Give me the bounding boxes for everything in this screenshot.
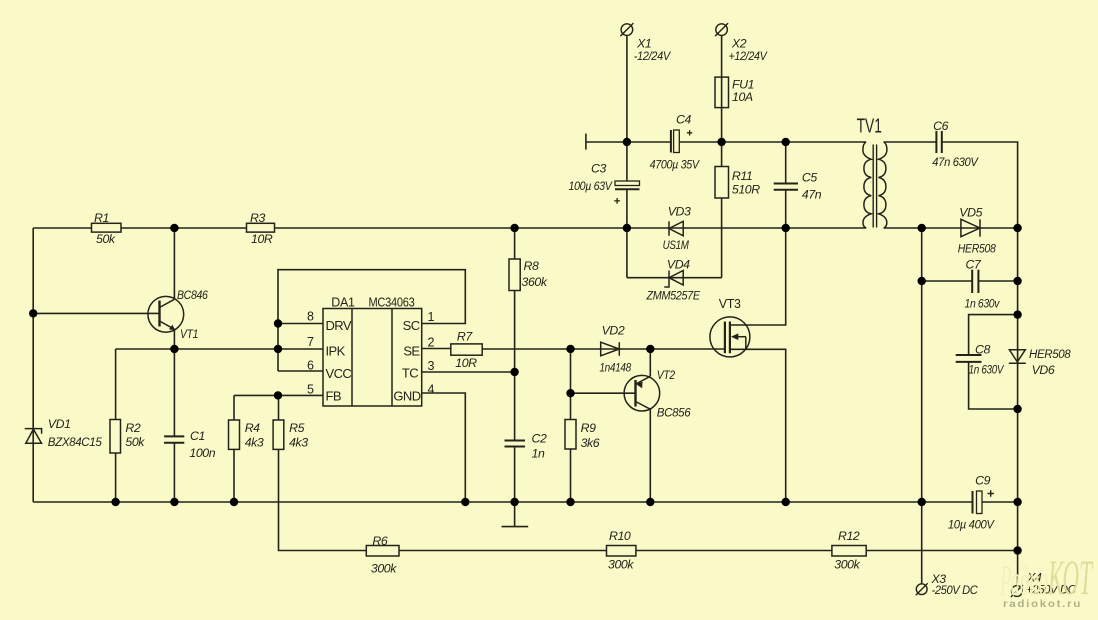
svg-text:HER508: HER508: [958, 242, 996, 256]
svg-text:SE: SE: [403, 344, 420, 359]
svg-text:US1M: US1M: [663, 238, 690, 252]
wire C4 to transformer primary top: [679, 141, 866, 143]
svg-text:VT1: VT1: [180, 327, 198, 341]
wire VT3 drain to row y228: [730, 228, 786, 325]
rail node C1: [170, 498, 178, 506]
node VT1 emitter: [170, 345, 178, 353]
wire main mid rail y228 (R1 R3 row): [33, 227, 91, 229]
resistor R12: [832, 546, 866, 557]
svg-text:MC34063: MC34063: [369, 295, 415, 309]
resistor R10: [607, 546, 636, 557]
node VD2-R9: [566, 345, 574, 353]
wire R2 riser top: [115, 349, 117, 420]
node C7 right: [1013, 277, 1021, 285]
wire R9 riser from VD2 row: [570, 349, 572, 420]
svg-text:DA1: DA1: [331, 295, 355, 309]
transformer TV1 primary winding: [863, 142, 871, 228]
transformer TV1 secondary winding: [879, 142, 887, 228]
svg-text:4k3: 4k3: [245, 436, 264, 450]
node R1-VT1 collector: [170, 224, 178, 232]
svg-text:GND: GND: [393, 389, 420, 404]
wire VT2 collector drop to rail: [649, 409, 651, 502]
svg-text:FB: FB: [326, 389, 341, 404]
wire R7 to VD2 anode row: [482, 348, 725, 350]
wire R6 row to R10: [399, 550, 607, 552]
svg-text:4700µ 35V: 4700µ 35V: [650, 158, 701, 172]
svg-text:R5: R5: [289, 421, 304, 435]
svg-text:5: 5: [307, 383, 314, 397]
transistor VT1 BC846 npn: [148, 296, 184, 332]
svg-text:10R: 10R: [455, 356, 477, 370]
resistor R11: [715, 167, 729, 199]
capacitor C3 polarized: [614, 181, 639, 204]
capacitor C8: [956, 355, 982, 362]
terminal X2: [715, 23, 728, 36]
node C5 top: [782, 138, 790, 146]
wire R9 bottom to rail: [570, 449, 572, 502]
wire FU1 to row y142: [721, 108, 723, 142]
wire R12 to right rail: [866, 550, 1017, 552]
svg-text:IPK: IPK: [326, 344, 346, 359]
capacitor C2: [505, 441, 526, 447]
node C3 bottom: [623, 224, 631, 232]
diode VD2: [601, 342, 620, 356]
svg-text:BC856: BC856: [657, 405, 691, 419]
svg-text:VCC: VCC: [326, 366, 352, 381]
wire C8 loop: [969, 315, 1018, 355]
wire C5 riser: [785, 142, 787, 184]
svg-text:BZX84C15: BZX84C15: [48, 435, 102, 449]
wire C1 riser top: [173, 349, 175, 436]
wire C8 loop bottom: [969, 362, 1018, 409]
IC DA1 MC34063 body: [323, 309, 422, 407]
svg-text:-250V DC: -250V DC: [932, 583, 978, 597]
capacitor C4 polarized: [671, 130, 692, 153]
wire VT1 collector riser: [173, 228, 175, 299]
wire VT2 emitter riser: [649, 349, 651, 376]
svg-text:R8: R8: [524, 259, 539, 273]
wire VD4 row left: [627, 277, 722, 279]
wire R11 bottom crossing y228 to VD4 row: [721, 198, 723, 278]
svg-text:+12/24V: +12/24V: [729, 49, 769, 63]
diode VD3: [669, 221, 683, 236]
rail node VT2 collector: [646, 498, 654, 506]
diode VD6: [1009, 350, 1026, 363]
wire X3 drop: [921, 502, 923, 584]
wire R10 to R12: [636, 550, 832, 552]
svg-text:C1: C1: [190, 429, 205, 443]
node R8 top: [510, 224, 518, 232]
ground stub below rail: [514, 502, 516, 527]
svg-text:R7: R7: [457, 330, 473, 344]
wire top feed row y142 left segment with end bar: [586, 141, 671, 143]
svg-text:C3: C3: [591, 162, 606, 176]
svg-text:8: 8: [307, 310, 314, 324]
resistor R9: [565, 420, 576, 450]
svg-text:HER508: HER508: [1029, 347, 1071, 361]
transistor VT2 BC856 pnp: [624, 375, 660, 411]
svg-text:360k: 360k: [522, 275, 548, 289]
svg-text:300k: 300k: [608, 557, 634, 571]
resistor R1: [92, 223, 122, 232]
svg-text:1: 1: [428, 310, 435, 324]
svg-text:100n: 100n: [189, 446, 215, 460]
fuse FU1: [715, 77, 729, 108]
wire R8 top riser: [514, 228, 516, 259]
node VT2 emitter top: [646, 345, 654, 353]
svg-text:R4: R4: [245, 421, 260, 435]
node IPK: [274, 345, 282, 353]
wire R8 bottom to TC node to C2: [514, 291, 516, 441]
svg-text:300k: 300k: [834, 557, 860, 571]
svg-text:47n: 47n: [802, 187, 822, 201]
svg-text:3: 3: [428, 359, 435, 373]
capacitor C9 polarized: [973, 490, 994, 513]
svg-text:TC: TC: [402, 366, 418, 381]
wire bottom rail right of C9: [982, 501, 1018, 503]
wire SE pin2 stub to R7: [422, 348, 451, 350]
terminal X4: [1011, 585, 1023, 597]
svg-text:R10: R10: [609, 529, 631, 543]
resistor R7: [451, 344, 482, 355]
svg-text:SC: SC: [403, 318, 420, 333]
diode VD5: [961, 219, 980, 236]
wire VD4 branch riser from y228 node: [626, 228, 628, 278]
feed row end cap bar: [585, 134, 587, 150]
svg-text:4k3: 4k3: [289, 436, 308, 450]
node VT2 base: [566, 389, 574, 397]
node X1 feed: [623, 138, 631, 146]
resistor R4: [229, 420, 240, 449]
svg-text:VD2: VD2: [602, 323, 625, 337]
rail node GND pin: [461, 498, 469, 506]
wire X2 drop through FU1 to row: [721, 35, 723, 77]
rail node R4: [230, 498, 238, 506]
svg-text:300k: 300k: [371, 562, 397, 576]
wire SC over-the-top loop to VCC: [278, 270, 465, 371]
svg-text:C2: C2: [532, 432, 547, 446]
wire C3 bottom to row y228: [626, 189, 628, 228]
wire right mid drop x921.7: [921, 228, 923, 502]
node X2 feed: [717, 138, 725, 146]
wire emitter row R2 to IPK: [116, 348, 278, 350]
node secondary bottom: [918, 224, 926, 232]
node R12 X4: [1013, 546, 1021, 554]
svg-text:R12: R12: [838, 529, 860, 543]
zener diode VD4: [664, 271, 683, 288]
capacitor C7: [972, 270, 978, 293]
wire C2 bottom to rail: [514, 446, 516, 502]
svg-text:1n: 1n: [532, 446, 545, 460]
node C7 left: [918, 277, 926, 285]
svg-text:VT3: VT3: [719, 297, 741, 311]
wire C6 to right rail corner: [942, 142, 1018, 228]
resistor R2: [110, 420, 121, 454]
wire FB pin5 row from R4: [234, 394, 323, 396]
rail node R2: [111, 498, 119, 506]
svg-text:10R: 10R: [251, 232, 273, 246]
svg-text:R2: R2: [125, 421, 140, 435]
svg-text:1n 630v: 1n 630v: [965, 296, 1001, 310]
wire bottom rail y502: [33, 501, 972, 503]
resistor R6: [366, 546, 399, 557]
wire transformer secondary bottom to VD5: [884, 227, 1018, 229]
wire R1 to VT1 collector node: [121, 227, 247, 229]
wire R5 riser: [278, 395, 280, 420]
svg-text:VD4: VD4: [667, 258, 690, 272]
wire C7 row: [922, 280, 973, 282]
wire FU1 internal: [721, 77, 723, 108]
resistor R5: [273, 420, 284, 449]
wire VCC pin6 stub: [278, 370, 323, 372]
node FB: [274, 391, 282, 399]
wire VT1 base from left rail: [33, 312, 159, 314]
svg-text:VD3: VD3: [668, 205, 691, 219]
svg-text:10A: 10A: [732, 90, 753, 104]
svg-text:C9: C9: [975, 474, 990, 488]
wire DRV pin8 stub: [278, 323, 323, 325]
svg-text:КОТ: КОТ: [1048, 549, 1094, 605]
svg-text:VT2: VT2: [657, 368, 675, 382]
node TC: [510, 368, 518, 376]
svg-text:2: 2: [428, 336, 435, 350]
wire X1 drop to mid node: [626, 35, 628, 142]
wire R4 bottom to rail: [233, 449, 235, 502]
svg-text:R9: R9: [581, 421, 596, 435]
wire X2 node down to R11: [721, 142, 723, 167]
svg-text:50k: 50k: [125, 435, 145, 449]
resistor R3: [247, 223, 275, 232]
rail node R9: [566, 498, 574, 506]
rail node C2: [510, 498, 518, 506]
svg-text:C6: C6: [933, 119, 948, 133]
terminal X1: [620, 23, 633, 36]
wire C1 bottom to rail: [173, 443, 175, 503]
svg-text:50k: 50k: [96, 232, 116, 246]
node C5 bottom / VT3 drain: [782, 224, 790, 232]
wire C5 bottom: [785, 190, 787, 229]
svg-text:radiokot.ru: radiokot.ru: [1003, 598, 1082, 610]
terminal X3: [916, 583, 928, 595]
wire left rail vertical: [32, 228, 34, 502]
wire right rail x1017.6: [1017, 228, 1019, 586]
wire GND pin4 to bottom rail: [422, 393, 466, 502]
svg-text:R11: R11: [732, 169, 752, 183]
svg-text:VD5: VD5: [959, 206, 982, 220]
wire VT3 source to bottom rail: [730, 349, 786, 502]
svg-text:100µ 63V: 100µ 63V: [569, 179, 614, 193]
wire C7 right: [978, 280, 1017, 282]
wire R3 to R8 node to C3 node: [275, 227, 867, 229]
node C8 bottom: [1013, 405, 1021, 413]
svg-text:TV1: TV1: [857, 116, 882, 138]
wire VT2 base row: [571, 392, 636, 394]
capacitor C1: [164, 436, 184, 442]
svg-text:3k6: 3k6: [581, 436, 600, 450]
svg-text:47n 630V: 47n 630V: [932, 155, 979, 169]
svg-text:1n 630V: 1n 630V: [969, 362, 1005, 376]
svg-text:-12/24V: -12/24V: [634, 49, 672, 63]
capacitor C5: [774, 184, 798, 190]
svg-text:VD6: VD6: [1032, 363, 1055, 377]
rail node X3: [918, 498, 926, 506]
wire R4 riser: [233, 395, 235, 420]
mosfet VT3: [710, 317, 750, 357]
wire C3 riser from row y142: [626, 142, 628, 181]
svg-text:DRV: DRV: [326, 318, 352, 333]
svg-text:4: 4: [428, 383, 435, 397]
rail node C9 right: [1013, 498, 1021, 506]
svg-text:1n4148: 1n4148: [599, 360, 631, 374]
svg-text:BC846: BC846: [177, 288, 208, 302]
svg-text:C8: C8: [975, 343, 990, 357]
svg-text:VD1: VD1: [48, 417, 71, 431]
svg-text:C7: C7: [966, 258, 982, 272]
svg-text:R6: R6: [372, 534, 387, 548]
resistor R8: [509, 259, 520, 291]
wire VT1 emitter riser: [173, 329, 175, 349]
node DRV: [274, 319, 282, 327]
svg-text:ZMM5257E: ZMM5257E: [646, 289, 701, 303]
svg-text:R1: R1: [94, 211, 109, 225]
svg-text:510R: 510R: [732, 183, 760, 197]
rail node VT3 source: [782, 498, 790, 506]
svg-text:C4: C4: [676, 113, 691, 127]
wire R5 bottom through rail to R6 row: [279, 449, 367, 550]
svg-text:R3: R3: [250, 211, 265, 225]
svg-text:7: 7: [307, 335, 314, 349]
node left rail base: [29, 309, 37, 317]
ground bar: [502, 526, 529, 528]
capacitor C6: [936, 131, 941, 153]
svg-text:6: 6: [307, 359, 314, 373]
node C8 top: [1013, 310, 1021, 318]
wire IPK pin7 stub: [278, 348, 323, 350]
svg-text:C5: C5: [802, 171, 817, 185]
svg-text:10µ 400V: 10µ 400V: [948, 518, 996, 532]
wire TC pin3 stub: [422, 371, 515, 373]
wire transformer secondary top to C6: [884, 141, 937, 143]
transformer TV1 core: [873, 145, 876, 228]
zener diode VD1: [25, 429, 42, 444]
wire R2 bottom to rail: [115, 453, 117, 502]
node VD5 cathode rail: [1013, 224, 1021, 232]
